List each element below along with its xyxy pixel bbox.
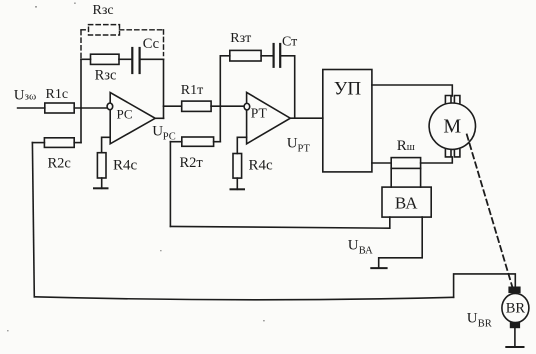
capacitor Cc <box>131 48 133 73</box>
resistor R4c <box>97 153 106 178</box>
wire R4c2 to ground <box>236 178 238 189</box>
wire Upc to R1t <box>164 105 182 107</box>
amplifier block UP <box>323 70 372 172</box>
svg-text:ВА: ВА <box>395 194 418 213</box>
svg-text:U: U <box>348 238 359 254</box>
wire Cc to output vertical <box>141 58 164 60</box>
motor M <box>429 103 475 149</box>
wire R3t to Ct <box>261 55 273 57</box>
wire PC output <box>155 117 163 119</box>
wire R2t left stub <box>170 141 181 143</box>
wire summing node vertical down <box>219 106 221 142</box>
wire feedback to R3c <box>81 58 91 60</box>
resistor R2t <box>182 137 214 146</box>
wire Rsh right tap to VA <box>420 168 422 187</box>
ground <box>94 187 108 189</box>
motor brushes bottom <box>445 149 460 157</box>
wire PT output to UP <box>290 117 323 119</box>
ground <box>371 267 386 269</box>
svg-text:R1с: R1с <box>46 87 69 102</box>
resistor Rsh <box>391 158 420 169</box>
scan specks <box>7 3 265 332</box>
wire R4c to ground <box>101 178 103 188</box>
current sensor block VA <box>382 187 431 217</box>
svg-text:Rзс: Rзс <box>93 3 114 18</box>
svg-text:ВА: ВА <box>359 246 373 257</box>
resistor R1c <box>45 103 74 113</box>
svg-text:РС: РС <box>117 107 133 122</box>
wire UP bottom output to Rsh <box>372 162 391 164</box>
svg-text:U: U <box>467 311 478 327</box>
node Uzw input wire <box>18 107 45 109</box>
wire R2c left stub <box>32 142 44 144</box>
svg-text:R2т: R2т <box>180 155 204 171</box>
wire PT non-inverting input <box>237 137 246 153</box>
wire Rsh left tap to VA <box>390 168 392 187</box>
svg-text:Rзс: Rзс <box>95 68 117 84</box>
wire BR to ground <box>514 328 516 347</box>
svg-text:РТ: РТ <box>298 144 311 155</box>
wire UP top output to motor <box>372 85 452 96</box>
wire current feedback vertical <box>169 142 171 227</box>
wire feedback right vertical to PT output <box>294 56 296 118</box>
ground <box>231 188 245 190</box>
tachogenerator BR <box>502 293 529 322</box>
wire VA output down <box>170 217 389 228</box>
wire feedback right vertical to PC output <box>163 59 165 118</box>
svg-text:Uзω: Uзω <box>14 87 36 103</box>
svg-text:R4с: R4с <box>249 158 274 174</box>
wire Rsh to motor bottom <box>421 157 453 163</box>
resistor R4c second <box>233 154 242 179</box>
svg-text:R2с: R2с <box>48 156 71 172</box>
svg-text:РТ: РТ <box>251 106 268 121</box>
wire R2c right stub <box>74 142 81 144</box>
svg-text:BR: BR <box>478 319 492 330</box>
ground <box>506 346 523 348</box>
svg-text:R1т: R1т <box>181 83 203 98</box>
wire R2t right stub <box>214 141 221 143</box>
op-amp PT <box>247 92 291 143</box>
svg-text:УП: УП <box>334 79 361 100</box>
svg-text:Ст: Ст <box>282 35 297 50</box>
wire PC non-inverting input <box>102 137 111 152</box>
svg-text:М: М <box>443 116 461 138</box>
BR brush bottom <box>510 322 520 328</box>
wire node vertical to R2c <box>80 108 82 143</box>
BR brush top <box>508 287 520 294</box>
svg-text:U: U <box>287 136 298 152</box>
wire VA to ground <box>379 217 423 268</box>
op-amp PC <box>110 93 155 144</box>
dashed resistor R3c (optional) <box>81 25 164 58</box>
wire summing node vertical up <box>219 56 221 106</box>
wire feedback to R3t <box>220 55 230 57</box>
wire node vertical to feedback <box>80 59 82 108</box>
capacitor Ct <box>273 44 275 67</box>
svg-text:R4с: R4с <box>113 158 138 174</box>
svg-text:BR: BR <box>506 301 526 317</box>
mechanical coupling dashed <box>467 135 513 288</box>
wire R1c to PC input <box>74 107 107 109</box>
wire R3c to Cc <box>119 58 131 60</box>
wire Ct to PT output vertical <box>281 55 294 57</box>
svg-text:U: U <box>152 124 163 140</box>
resistor R1t <box>182 101 211 111</box>
resistor R3t <box>230 50 261 61</box>
wire BR to speed feedback <box>454 274 516 297</box>
motor brushes top <box>445 96 460 104</box>
svg-text:Сс: Сс <box>143 36 159 52</box>
wire speed feedback left vertical <box>32 143 34 297</box>
svg-text:РС: РС <box>163 132 176 143</box>
wire R1t to PT input <box>211 105 244 107</box>
resistor R2c <box>44 138 74 148</box>
resistor R3c <box>91 54 120 64</box>
svg-text:Rзт: Rзт <box>230 31 251 46</box>
